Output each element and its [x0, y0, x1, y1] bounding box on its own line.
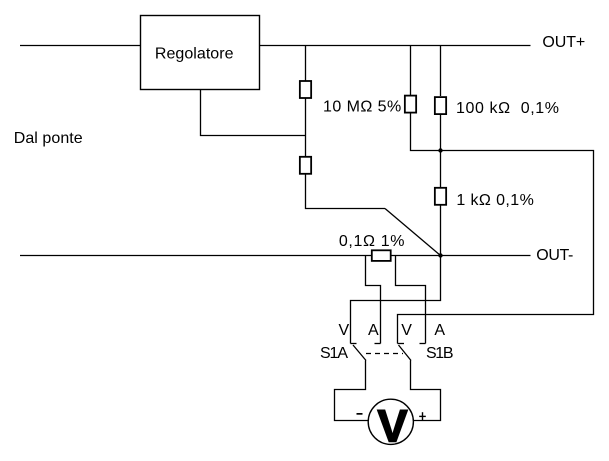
resistor R1 upper left chain: [300, 81, 311, 98]
wire right loop from node A: [398, 151, 594, 344]
voltmeter M1 circle: [368, 399, 413, 444]
wire S1B A contact foot: [420, 343, 426, 345]
regulator box U1 Regolatore: [141, 16, 260, 90]
wire kelvin tap right of shunt: [396, 256, 426, 344]
svg-text:S1B: S1B: [426, 345, 454, 362]
svg-text:V: V: [339, 322, 350, 339]
svg-text:OUT-: OUT-: [536, 247, 573, 264]
resistor R4 100 kOhm 0,1%: [435, 97, 446, 114]
switch S1B pole arm: [399, 345, 412, 361]
wire OUT+ rail to resistor chain top: [305, 46, 307, 81]
svg-text:0,1Ω 1%: 0,1Ω 1%: [339, 233, 405, 250]
wire 10M branch top: [410, 46, 412, 96]
resistor R5 1 kOhm 0,1%: [435, 188, 446, 205]
wire input line to regulator: [20, 45, 141, 47]
resistor R2 lower left chain: [300, 157, 311, 174]
wire kelvin tap left of shunt: [366, 256, 381, 344]
resistor R6 0,1 Ohm shunt: [372, 250, 391, 261]
svg-text:Regolatore: Regolatore: [155, 46, 234, 63]
wire 100k branch top: [440, 46, 442, 97]
wire S1A pole to meter minus: [335, 361, 369, 421]
switch gang dashed link: [366, 353, 403, 355]
label meter minus: [357, 413, 363, 415]
svg-text:V: V: [401, 322, 412, 339]
wire 100k bottom to node A: [440, 114, 442, 187]
wire 10M branch bottom: [411, 113, 441, 151]
svg-text:A: A: [368, 322, 379, 339]
node OUT- junction dot: [438, 253, 442, 257]
svg-text:10 MΩ 5%: 10 MΩ 5%: [323, 98, 401, 115]
switch S1A pole arm: [353, 345, 366, 361]
svg-text:OUT+: OUT+: [542, 34, 585, 51]
wire regulator bottom stub down: [201, 90, 306, 136]
svg-text:Dal ponte: Dal ponte: [14, 130, 83, 147]
wire OUT- node down to S1A V contact: [351, 256, 441, 344]
resistor R3 10 MOhm 5%: [405, 96, 416, 113]
wire S1A A contact foot: [375, 343, 381, 345]
svg-text:1 kΩ 0,1%: 1 kΩ 0,1%: [456, 192, 533, 209]
wire S1B pole to meter plus: [411, 361, 441, 421]
svg-text:S1A: S1A: [320, 345, 348, 362]
wire chain bottom: [306, 175, 386, 209]
wire 1k bottom to OUT- node: [440, 205, 442, 256]
label meter plus: [419, 412, 426, 420]
svg-text:V: V: [377, 401, 407, 452]
wire S1A V contact foot: [351, 343, 357, 345]
svg-text:A: A: [434, 322, 445, 339]
node A junction dot: [438, 148, 442, 152]
wire S1B V contact foot: [398, 343, 405, 345]
wire OUT- rail left: [20, 255, 371, 257]
svg-text:100 kΩ 0,1%: 100 kΩ 0,1%: [456, 100, 559, 117]
wire OUT+ rail: [260, 45, 531, 47]
wire diagonal to OUT- node: [385, 209, 441, 256]
wire between chain resistors: [305, 99, 307, 157]
wire OUT- rail right: [391, 255, 531, 257]
